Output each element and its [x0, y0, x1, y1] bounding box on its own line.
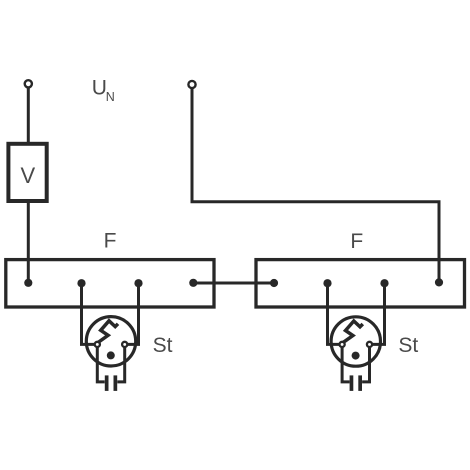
wire X2 to lamp F2 pin 4: [192, 88, 439, 282]
ballast V1: [8, 144, 46, 201]
starter St1 right contact: [122, 342, 127, 347]
capacitor C2 left plate: [350, 375, 354, 391]
starter St2 bulb envelope: [331, 317, 380, 366]
node F1 pin 1: [24, 279, 32, 287]
svg-text:St: St: [153, 334, 173, 357]
wire St2 left contact down to capacitor: [342, 347, 349, 382]
starter St1 gas dot: [107, 351, 115, 359]
lamp F1: [6, 260, 214, 307]
wire St1 right contact down to capacitor: [117, 347, 124, 382]
node F2 pin 4: [435, 278, 443, 286]
svg-text:St: St: [398, 334, 418, 357]
wire lamp F2 pin 3 to starter St2 right contact: [370, 283, 385, 344]
svg-text:N: N: [106, 90, 115, 104]
node F2 pin 1: [270, 279, 278, 287]
wire lamp F1 pin 3 to starter St1 right contact: [125, 283, 139, 344]
svg-text:U: U: [92, 77, 107, 100]
svg-text:V: V: [21, 163, 36, 188]
wire lamp F1 pin 4 to lamp F2 pin 1: [193, 282, 274, 285]
node F2 pin 2: [323, 279, 331, 287]
node F2 pin 3: [380, 279, 388, 287]
node F1 pin 2: [77, 279, 85, 287]
wire lamp F2 pin 2 to starter St2 left contact: [328, 283, 343, 344]
wire St2 right contact down to capacitor: [362, 347, 369, 382]
wire ballast V to lamp F1 pin 1: [27, 201, 30, 283]
capacitor C1 left plate: [105, 375, 109, 391]
starter St1 bimetal electrode: [97, 321, 118, 343]
terminal X1 (phase input): [25, 80, 32, 87]
wire lamp F1 pin 2 to starter St1 left contact: [82, 283, 98, 344]
svg-text:F: F: [350, 230, 363, 253]
wire St1 left contact down to capacitor: [97, 347, 104, 382]
starter St1 left contact: [95, 342, 100, 347]
starter St1 bulb envelope: [86, 317, 135, 366]
lamp F2: [256, 260, 465, 307]
starter St2 right contact: [367, 342, 372, 347]
capacitor C2 right plate: [358, 375, 362, 391]
starter St2 gas dot: [352, 352, 360, 360]
starter St2 bimetal electrode: [342, 321, 363, 343]
starter St1: [82, 283, 139, 391]
node F1 pin 3: [134, 279, 142, 287]
capacitor C1 right plate: [114, 375, 118, 391]
starter St2 left contact: [340, 342, 345, 347]
node F1 pin 4: [189, 279, 197, 287]
wire X1 to ballast V: [27, 88, 30, 144]
label U_N: [92, 77, 115, 104]
starter St2: [328, 283, 385, 391]
terminal X2 (neutral input): [188, 81, 195, 88]
svg-text:F: F: [104, 230, 117, 253]
